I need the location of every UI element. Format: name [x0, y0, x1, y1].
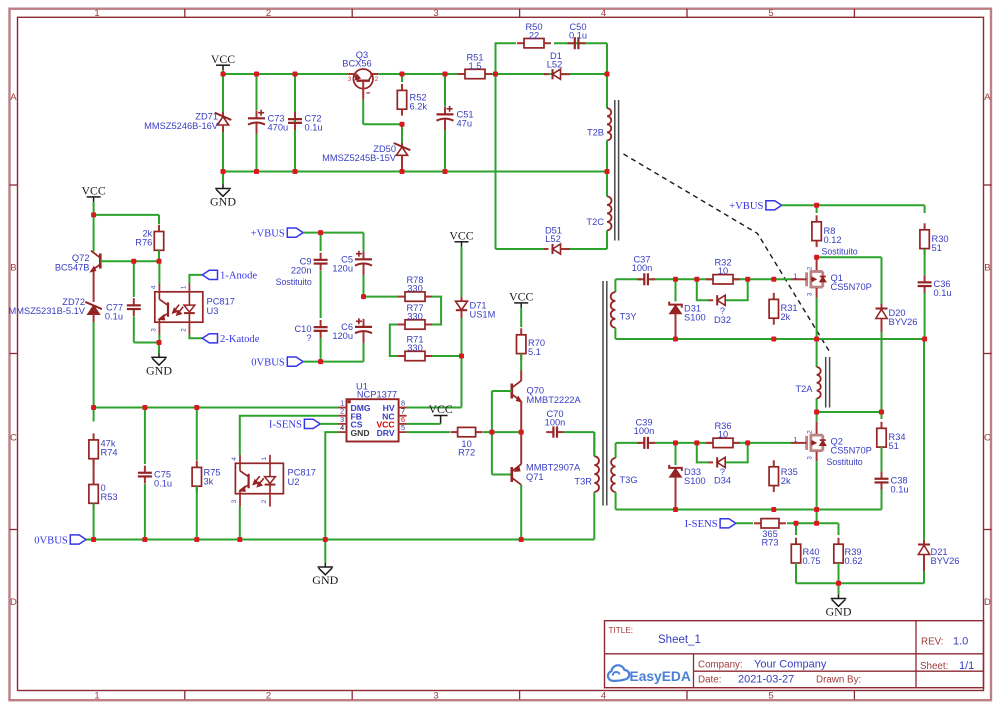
svg-text:2k: 2k [781, 312, 791, 322]
svg-text:?: ? [306, 333, 311, 343]
transformer winding T2C [586, 172, 611, 231]
diode D32 [709, 295, 732, 325]
junction [142, 537, 147, 542]
dashed coupling line [624, 154, 831, 353]
wire gate row Q1 [615, 278, 791, 280]
diode D33 S100 [669, 443, 706, 510]
svg-text:330: 330 [407, 283, 423, 293]
net flag +VBUS left [251, 228, 304, 239]
wire top bottom rail [223, 171, 607, 173]
svg-text:2: 2 [807, 266, 814, 270]
transistor Q3 [342, 50, 379, 100]
svg-text:CS5N70P: CS5N70P [831, 446, 872, 456]
junction [836, 581, 841, 586]
svg-text:Sheet_1: Sheet_1 [658, 634, 701, 646]
transformer winding T3R [574, 432, 599, 539]
resistor R72 [407, 427, 483, 457]
wire [606, 140, 608, 171]
resistor R31 [769, 293, 797, 325]
svg-text:U2: U2 [288, 477, 300, 487]
junction [814, 521, 819, 526]
svg-text:2021-03-27: 2021-03-27 [738, 674, 794, 686]
svg-text:1: 1 [793, 435, 797, 444]
transformer winding T3G [611, 443, 637, 510]
svg-text:100n: 100n [634, 426, 655, 436]
svg-text:S100: S100 [684, 476, 706, 486]
wire VCC top rail [223, 73, 607, 75]
svg-text:MMSZ5231B-5.1V: MMSZ5231B-5.1V [9, 306, 86, 316]
svg-text:3: 3 [433, 8, 438, 19]
svg-text:VCC: VCC [428, 402, 452, 416]
junction [459, 354, 464, 359]
wire [134, 342, 159, 344]
svg-text:10: 10 [718, 430, 728, 440]
svg-text:1-Anode: 1-Anode [220, 271, 257, 282]
svg-text:3: 3 [151, 328, 158, 332]
wire [364, 296, 399, 298]
junction [91, 537, 96, 542]
junction [771, 507, 776, 512]
svg-text:Q71: Q71 [526, 472, 544, 482]
svg-text:T2C: T2C [586, 217, 604, 227]
svg-text:GND: GND [210, 195, 236, 209]
svg-text:4: 4 [601, 8, 606, 19]
svg-text:3: 3 [807, 292, 814, 296]
svg-text:0.1u: 0.1u [934, 288, 952, 298]
junction [605, 169, 610, 174]
junction [794, 521, 799, 526]
wire U3 pin1 to flag [189, 275, 202, 284]
wire [407, 423, 441, 425]
svg-text:1.0: 1.0 [953, 636, 968, 648]
resistor R74 [89, 408, 118, 466]
svg-text:T3R: T3R [574, 477, 592, 487]
transistor Q2 CS5N70P [791, 412, 872, 523]
svg-text:BC547B: BC547B [55, 262, 90, 272]
junction [443, 169, 448, 174]
svg-text:CS5N70P: CS5N70P [831, 282, 872, 292]
resistor R34 [877, 412, 906, 454]
ground GND top [210, 172, 236, 209]
svg-text:PC817: PC817 [288, 468, 316, 478]
svg-text:T3G: T3G [620, 475, 638, 485]
transformer winding T2A [795, 339, 820, 412]
svg-text:4: 4 [231, 457, 238, 461]
net flag 0VBUS bottom [34, 535, 86, 546]
svg-text:3: 3 [807, 456, 814, 460]
power flag VCC mid [449, 228, 473, 252]
junction [814, 337, 819, 342]
svg-text:I-SENS: I-SENS [685, 519, 718, 530]
svg-text:D34: D34 [714, 476, 731, 486]
wire 0VBUS rail [86, 539, 594, 541]
junction [400, 72, 405, 77]
wire D34 loop [697, 443, 748, 463]
diode D34 [709, 457, 732, 485]
svg-text:5: 5 [768, 690, 773, 701]
ground GND U3 [146, 343, 172, 378]
transistor Q70 MMBT2222A [512, 354, 582, 433]
IC U1 NCP1377 [339, 381, 407, 441]
svg-text:BYV26: BYV26 [889, 317, 918, 327]
svg-text:51: 51 [889, 441, 899, 451]
resistor R51 [458, 53, 492, 79]
wire FB to U2 [240, 416, 339, 455]
wire T2A bottom [817, 411, 882, 413]
svg-text:100n: 100n [545, 417, 566, 427]
junction [879, 410, 884, 415]
svg-text:GND: GND [351, 428, 370, 438]
svg-text:C: C [10, 433, 17, 444]
svg-text:2: 2 [261, 499, 268, 503]
svg-text:C: C [984, 433, 991, 444]
wire lower rail [616, 509, 882, 511]
svg-text:R72: R72 [458, 447, 475, 457]
wire bottom gnd rail [796, 582, 924, 584]
junction [131, 259, 136, 264]
svg-text:Your Company: Your Company [754, 658, 827, 670]
resistor R32 [706, 258, 740, 285]
net flag I-SENS left [269, 419, 320, 430]
svg-text:470u: 470u [268, 122, 289, 132]
zener ZD50 [322, 124, 410, 171]
capacitor C50 [568, 22, 587, 49]
svg-text:EasyEDA: EasyEDA [630, 669, 691, 684]
svg-text:4: 4 [151, 285, 158, 289]
wire to R76 [94, 215, 159, 224]
label Sostituito C9 [276, 277, 312, 287]
svg-text:100n: 100n [632, 263, 653, 273]
wire [303, 232, 363, 234]
junction [194, 537, 199, 542]
zener ZD72 [9, 271, 102, 407]
junction [194, 405, 199, 410]
junction [293, 169, 298, 174]
svg-text:4: 4 [340, 423, 344, 432]
svg-text:5: 5 [768, 8, 773, 19]
svg-text:MMBT2222A: MMBT2222A [527, 395, 582, 405]
wire [158, 250, 160, 261]
svg-text:MMSZ5245B-15V: MMSZ5245B-15V [322, 153, 397, 163]
junction [922, 337, 927, 342]
svg-text:VCC: VCC [81, 184, 105, 198]
transistor Q71 MMBT2907A [512, 432, 581, 539]
svg-text:2k: 2k [781, 476, 791, 486]
net flag 1-Anode [202, 270, 257, 281]
svg-text:L52: L52 [545, 234, 561, 244]
junction [673, 507, 678, 512]
svg-text:0.1u: 0.1u [891, 485, 909, 495]
svg-text:2-Katode: 2-Katode [220, 334, 260, 345]
capacitor C6 [332, 318, 372, 361]
svg-text:GND: GND [146, 363, 172, 377]
resistor R73 [754, 519, 786, 548]
junction [745, 277, 750, 282]
svg-text:1/1: 1/1 [959, 660, 974, 672]
label Sostituito Q2 [827, 457, 863, 467]
wire +VBUS rail [782, 204, 925, 206]
svg-text:D32: D32 [714, 315, 731, 325]
svg-text:+VBUS: +VBUS [251, 228, 285, 239]
transformer core T2A [826, 357, 830, 408]
junction [293, 72, 298, 77]
wire R50 branch [496, 43, 608, 74]
wire GND pin [325, 432, 338, 539]
svg-text:2: 2 [375, 76, 379, 83]
svg-text:0.12: 0.12 [824, 235, 842, 245]
transistor Q72 BC547B [55, 215, 100, 272]
net flag +VBUS right [729, 201, 782, 212]
junction [694, 440, 699, 445]
svg-text:PC817: PC817 [207, 297, 235, 307]
resistor R70 [517, 312, 546, 360]
junction [489, 430, 494, 435]
svg-text:5: 5 [401, 423, 405, 432]
resistor R76 [135, 225, 163, 257]
junction [91, 212, 96, 217]
svg-text:US1M: US1M [470, 310, 496, 320]
svg-text:0.1u: 0.1u [154, 479, 172, 489]
svg-text:R73: R73 [761, 537, 778, 547]
junction [318, 230, 323, 235]
diode D21 BYV26 [918, 339, 959, 583]
svg-text:R76: R76 [135, 238, 152, 248]
svg-text:0.75: 0.75 [803, 556, 821, 566]
svg-text:6.2k: 6.2k [410, 102, 428, 112]
svg-text:2: 2 [266, 690, 271, 701]
wire [320, 423, 338, 425]
resistor R77 [398, 303, 432, 329]
junction [673, 277, 678, 282]
svg-text:1.5: 1.5 [469, 61, 482, 71]
resistor R36 [706, 421, 740, 448]
svg-text:GND: GND [826, 605, 852, 619]
power flag VCC left [81, 184, 105, 215]
transformer winding T2B [587, 108, 611, 140]
ground GND U1 [312, 540, 338, 588]
svg-text:BYV26: BYV26 [931, 556, 960, 566]
svg-text:Sostituito: Sostituito [827, 457, 863, 467]
label Sostituito Q1 [822, 246, 858, 256]
svg-text:GND: GND [312, 573, 338, 587]
svg-text:0.1u: 0.1u [569, 31, 587, 41]
zener ZD71 [144, 74, 231, 172]
svg-text:R53: R53 [101, 492, 118, 502]
capacitor C9 [291, 233, 328, 318]
svg-text:1: 1 [94, 8, 99, 19]
diode D1 L52 [496, 51, 608, 79]
wire mid rail [615, 338, 924, 340]
capacitor C51 [437, 74, 474, 172]
wire [432, 297, 441, 325]
svg-text:D: D [10, 597, 17, 608]
svg-text:3: 3 [231, 499, 238, 503]
resistor R35 [769, 460, 798, 492]
svg-text:S100: S100 [684, 313, 706, 323]
svg-text:Company:: Company: [698, 659, 743, 670]
svg-text:B: B [10, 263, 16, 274]
junction [157, 259, 162, 264]
junction [771, 337, 776, 342]
junction [673, 440, 678, 445]
wire U2 pin3 to rail [239, 506, 241, 539]
svg-text:51: 51 [932, 243, 942, 253]
resistor R78 [364, 275, 433, 301]
resistor R39 [834, 523, 863, 583]
svg-text:D: D [984, 597, 991, 608]
junction [318, 359, 323, 364]
wire [407, 431, 522, 433]
wire to D20 [817, 257, 882, 304]
junction [673, 337, 678, 342]
optocoupler U2 PC817 [231, 455, 316, 507]
svg-text:BCX56: BCX56 [342, 58, 371, 68]
svg-text:47u: 47u [457, 119, 473, 129]
wire [390, 325, 398, 357]
svg-text:0VBUS: 0VBUS [251, 357, 285, 368]
svg-text:DRV: DRV [377, 428, 395, 438]
junction [519, 537, 524, 542]
svg-text:2: 2 [807, 430, 814, 434]
wire U3 pin2 to flag [189, 335, 202, 339]
svg-text:22: 22 [529, 31, 539, 41]
wire [787, 522, 839, 524]
svg-text:Date:: Date: [698, 675, 721, 686]
title block [605, 621, 984, 688]
resistor R30 [920, 205, 949, 255]
svg-text:Sheet:: Sheet: [920, 661, 948, 672]
wire DMG rail [94, 407, 339, 409]
svg-text:10: 10 [718, 266, 728, 276]
svg-text:VCC: VCC [211, 52, 235, 66]
capacitor C38 [875, 447, 909, 510]
capacitor C10 [294, 320, 327, 362]
svg-text:MMSZ5246B-16V: MMSZ5246B-16V [144, 121, 219, 131]
transformer core T3 [603, 281, 607, 506]
svg-text:1: 1 [181, 285, 188, 289]
svg-text:A: A [10, 92, 17, 103]
junction [814, 410, 819, 415]
power flag VCC U1 [428, 402, 452, 424]
optocoupler U3 PC817 [151, 283, 235, 335]
net flag 2-Katode [202, 334, 259, 345]
svg-text:Drawn By:: Drawn By: [816, 675, 861, 686]
svg-text:1: 1 [793, 271, 797, 280]
junction [254, 169, 259, 174]
svg-text:L52: L52 [547, 60, 563, 70]
junction [221, 169, 226, 174]
wire [303, 361, 363, 363]
junction [443, 72, 448, 77]
resistor R71 [398, 335, 432, 361]
wire U3 pin3 [158, 335, 160, 343]
wire base column [492, 391, 512, 475]
capacitor C37 [632, 255, 655, 286]
wire Q72 base [100, 260, 159, 262]
svg-text:2: 2 [181, 328, 188, 332]
svg-text:3k: 3k [204, 477, 214, 487]
junction [745, 440, 750, 445]
wire [564, 432, 594, 456]
svg-text:1: 1 [94, 690, 99, 701]
diode D51 L52 [544, 226, 570, 255]
svg-text:VCC: VCC [449, 228, 473, 242]
svg-text:U3: U3 [207, 306, 219, 316]
junction [254, 72, 259, 77]
svg-text:0VBUS: 0VBUS [34, 535, 68, 546]
power flag VCC top [211, 52, 235, 74]
junction [91, 405, 96, 410]
junction [814, 255, 819, 260]
svg-text:Sostituito: Sostituito [822, 246, 858, 256]
wire gate row Q2 [616, 442, 791, 444]
net flag I-SENS right [685, 519, 736, 530]
svg-text:REV:: REV: [921, 637, 944, 648]
junction [400, 122, 405, 127]
svg-text:Sostituito: Sostituito [276, 277, 312, 287]
svg-text:1: 1 [261, 457, 268, 461]
svg-text:T2B: T2B [587, 128, 604, 138]
svg-text:220n: 220n [291, 266, 312, 276]
resistor R40 [791, 523, 820, 583]
wire D51 loop [496, 74, 608, 249]
diode D71 US1M [456, 252, 496, 356]
wire [432, 355, 462, 357]
svg-text:330: 330 [407, 343, 423, 353]
junction [237, 537, 242, 542]
svg-text:I-SENS: I-SENS [269, 420, 302, 431]
power flag VCC Q70 [509, 290, 533, 313]
junction [323, 537, 328, 542]
wire [736, 522, 753, 524]
wire T2B left leg [606, 74, 608, 108]
svg-text:0.1u: 0.1u [305, 122, 323, 132]
wire D32 loop [697, 279, 748, 300]
wire Q3 base to R52/ZD50 node [363, 100, 402, 125]
junction [605, 72, 610, 77]
wire U3 pin4 [158, 261, 160, 283]
svg-text:3: 3 [348, 76, 352, 83]
svg-text:0.62: 0.62 [845, 556, 863, 566]
junction [493, 72, 498, 77]
capacitor C36 [918, 249, 952, 339]
junction [519, 430, 524, 435]
junction [400, 169, 405, 174]
svg-text:4: 4 [601, 690, 606, 701]
svg-text:A: A [984, 92, 991, 103]
svg-text:3: 3 [433, 690, 438, 701]
diode D20 BYV26 [876, 304, 918, 412]
capacitor C75 [138, 408, 172, 540]
svg-text:330: 330 [407, 311, 423, 321]
transformer core T2 [615, 100, 619, 241]
capacitor C5 [332, 233, 372, 297]
ground GND right [826, 583, 852, 618]
resistor R50 [517, 22, 551, 48]
resistor R52 [397, 74, 427, 116]
capacitor C72 [288, 74, 323, 172]
capacitor C39 [634, 418, 655, 449]
wire HV column [407, 356, 462, 408]
svg-text:T2A: T2A [795, 384, 813, 394]
net flag 0VBUS left [251, 357, 303, 368]
junction [814, 507, 819, 512]
junction [814, 203, 819, 208]
svg-text:R74: R74 [101, 447, 118, 457]
junction [771, 277, 776, 282]
junction [142, 405, 147, 410]
diode D31 S100 [669, 279, 706, 339]
